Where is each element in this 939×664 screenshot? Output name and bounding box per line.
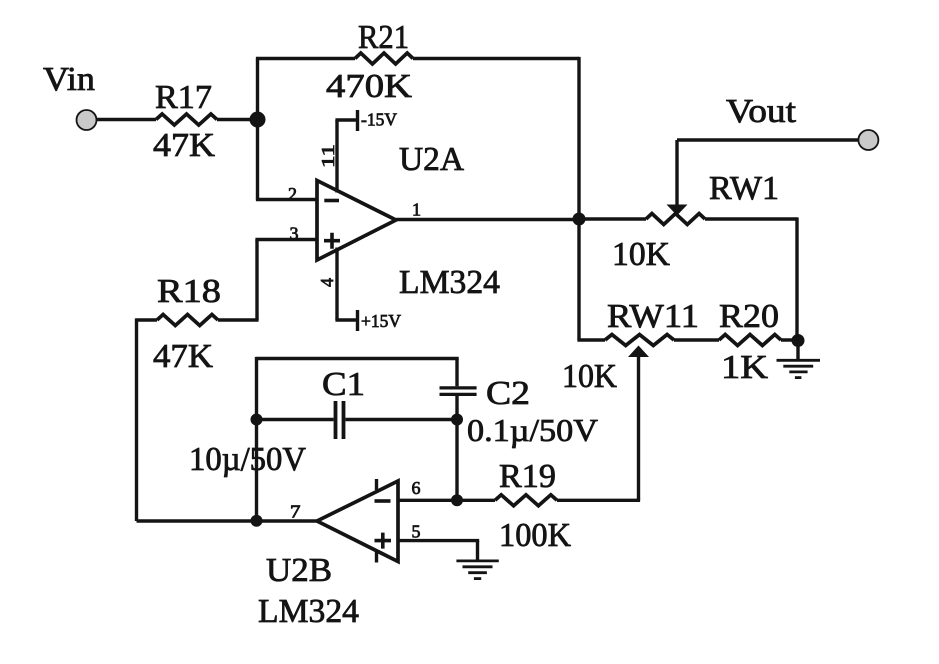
wire RW1 to right vertical [705,217,797,220]
wire pin 6 [398,499,457,502]
svg-text:C1: C1 [322,366,365,403]
op-amp U2B [317,481,398,562]
junction dot pin6 node [451,494,463,506]
wire R18 left corner [137,318,158,321]
svg-text:10K: 10K [612,236,670,273]
wire into pin 3 [255,238,317,241]
pin 1 output wire [396,218,579,221]
terminal Vout [858,130,878,150]
wire pin6 node to R19 [457,499,495,502]
svg-text:Vout: Vout [726,93,797,130]
svg-text:1K: 1K [721,349,768,386]
potentiometer RW11 body [605,335,674,346]
wire Vout horizontal [677,138,859,141]
plus sign U2B [375,533,392,549]
wire R19 to RW11 wiper column [557,499,640,502]
svg-text:1: 1 [412,200,421,220]
ground G1 stem [796,341,799,360]
svg-text:10K: 10K [562,358,617,395]
wire C2 bottom vertical [455,396,458,500]
svg-text:U2B: U2B [266,552,332,589]
ground G2 [456,561,498,579]
wire pin 3 down to R18 [255,240,258,321]
svg-text:2: 2 [288,184,297,204]
junction dot C1 right [451,414,463,426]
RW11 wiper arrow [628,346,649,358]
svg-text:100K: 100K [499,517,571,554]
op-amp U2A [317,181,396,261]
plus sign U2A [324,233,340,249]
wire R17 to node A [217,118,258,121]
svg-text:LM324: LM324 [258,593,359,630]
capacitor C1 [336,401,344,439]
svg-text:10µ/50V: 10µ/50V [189,441,306,478]
svg-text:5: 5 [412,522,421,542]
potentiometer RW1 body [646,214,705,225]
U2B bottom power tick [375,552,378,563]
wire C1 left vertical [255,357,258,521]
resistor R18 [157,315,218,326]
wire R18 right segment [218,318,259,321]
minus sign U2B [375,499,391,503]
svg-text:7: 7 [290,502,301,522]
wire node A down to pin 2 [256,120,259,200]
+15V power symbol [335,310,357,331]
resistor R17 [156,114,217,125]
wire pin 7 output [137,519,318,522]
wire node B down to RW11 [577,219,580,340]
svg-text:0.1µ/50V: 0.1µ/50V [467,412,598,448]
wire RW11 to R20 [674,338,719,341]
junction dot C1 left [251,414,263,426]
wire R20 to ground junction [781,338,798,341]
svg-text:R21: R21 [358,19,409,56]
svg-text:C2: C2 [486,375,530,412]
svg-text:4: 4 [317,278,337,287]
node A junction dot [250,112,266,128]
svg-text:47K: 47K [153,127,215,164]
wire Vin to R17 [97,118,157,121]
svg-text:RW1: RW1 [709,170,779,207]
svg-text:+15V: +15V [361,311,401,331]
svg-text:LM324: LM324 [399,264,500,301]
minus sign U2A [324,199,339,203]
wire C1 top rail [257,357,459,360]
svg-text:R17: R17 [155,79,212,116]
RW1 wiper arrow [675,140,678,206]
resistor R21 [355,53,413,64]
wire C1 row right [346,418,458,421]
-15V power symbol [335,110,357,131]
terminal Vin [77,110,97,130]
svg-text:RW11: RW11 [607,298,699,335]
wire into pin 2 [256,198,317,201]
wire right corner down to node B [577,57,580,219]
wire C1 row left [257,418,334,421]
svg-text:R19: R19 [499,458,556,495]
wire pin 5 [398,539,479,542]
wire rail left to R21 [256,57,355,60]
svg-text:6: 6 [412,478,421,498]
junction dot pin7 node [251,515,263,527]
pin 4 stub [335,248,338,321]
ground G1 [777,360,821,377]
svg-text:R20: R20 [719,298,779,335]
svg-text:R18: R18 [157,273,221,310]
resistor R20 [719,335,781,346]
resistor R19 [495,495,557,506]
svg-text:11: 11 [318,144,338,168]
node B junction dot [573,213,586,226]
wire to RW11 body [577,338,605,341]
capacitor C2 [440,388,477,395]
svg-text:47K: 47K [153,338,213,375]
svg-text:U2A: U2A [399,141,464,178]
wire right vertical down to R20 [795,217,798,340]
svg-text:Vin: Vin [43,61,95,98]
U2B top power tick [375,479,378,490]
svg-text:-15V: -15V [361,110,397,130]
pin 11 stub [335,120,338,193]
junction dot at ground [792,334,805,347]
wire C2 top vertical [455,359,458,387]
svg-text:470K: 470K [326,68,412,105]
wire R21 to right corner [413,57,579,60]
wire pin 5 down to ground [476,541,479,560]
wire left vertical down to pin 7 row [135,318,138,521]
wire node A up to R21 rail [256,59,259,120]
wire node B to RW1 [579,217,646,220]
svg-text:3: 3 [290,224,299,244]
